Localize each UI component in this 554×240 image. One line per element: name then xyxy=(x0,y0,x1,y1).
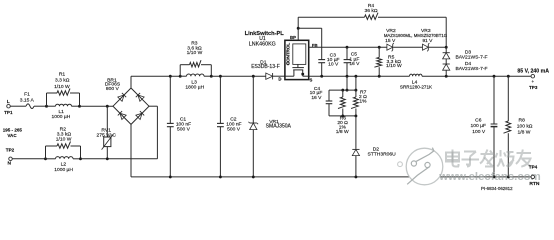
wire sense box top xyxy=(329,89,357,92)
svg-text:MAZS1800ML, MMSZ5270BT1G: MAZS1800ML, MMSZ5270BT1G xyxy=(384,33,448,38)
wire bridge negative riser xyxy=(130,124,132,176)
svg-text:500 V: 500 V xyxy=(177,126,191,132)
svg-text:LNK460KG: LNK460KG xyxy=(249,41,276,47)
node N / test point TP2 xyxy=(6,148,15,167)
capacitor C3 10 uF xyxy=(318,52,339,76)
watermark char dian xyxy=(446,150,459,167)
wire sense box bottom xyxy=(329,114,357,117)
wire output rail xyxy=(422,75,531,78)
wire VR2 to VR3 xyxy=(393,46,422,48)
svg-text:1/10 W: 1/10 W xyxy=(386,63,402,69)
label 195-265 VAC xyxy=(3,127,23,137)
wire L line from TP1 to fuse xyxy=(10,105,26,107)
svg-text:91 V: 91 V xyxy=(422,38,433,44)
bridge diode lower-right xyxy=(136,111,144,119)
svg-text:TP3: TP3 xyxy=(529,85,538,90)
svg-text:16 V: 16 V xyxy=(311,95,322,101)
inductor L4 SRR1280-271K xyxy=(400,74,433,89)
node RTN / test point TP4 xyxy=(529,164,540,187)
resistor R7 2 Ohm xyxy=(351,76,367,116)
resistor R8 100 kOhm xyxy=(504,76,533,177)
svg-text:R8: R8 xyxy=(519,118,526,124)
diode D1 ES3DB-13-F xyxy=(251,59,285,79)
U1 pin label BP xyxy=(290,35,296,40)
bridge diode lower-left xyxy=(118,111,126,119)
svg-text:TP1: TP1 xyxy=(4,110,13,115)
U1 CONTROL block xyxy=(286,43,306,66)
watermark char zi xyxy=(462,152,480,167)
svg-text:500 V: 500 V xyxy=(227,126,241,132)
node output / test point TP3 xyxy=(517,69,549,91)
svg-text:+: + xyxy=(531,79,534,84)
svg-text:1%: 1% xyxy=(359,99,367,105)
svg-text:275 VAC: 275 VAC xyxy=(96,133,116,139)
svg-text:TP2: TP2 xyxy=(6,148,15,153)
svg-text:15 V: 15 V xyxy=(385,38,396,44)
svg-text:SRR1280-271K: SRR1280-271K xyxy=(400,84,433,89)
svg-text:85 V, 240 mA: 85 V, 240 mA xyxy=(517,69,549,75)
svg-text:1000 µH: 1000 µH xyxy=(54,167,73,173)
svg-text:36 kΩ: 36 kΩ xyxy=(364,8,377,14)
watermark char fa xyxy=(480,150,494,167)
svg-text:D3: D3 xyxy=(465,50,472,56)
svg-text:www.elecfans.com: www.elecfans.com xyxy=(438,171,541,183)
U1 internal MOSFET xyxy=(285,62,309,76)
capacitor C1 100 nF xyxy=(167,76,191,177)
zener VR3 91V xyxy=(421,28,433,52)
svg-text:BAV21WS-7-F: BAV21WS-7-F xyxy=(455,66,487,72)
wire BP riser xyxy=(297,17,300,40)
wire fuse to R1/L1 junction xyxy=(34,105,48,108)
label zener part numbers xyxy=(384,33,448,38)
wire N line to riser and bridge right corner xyxy=(81,106,158,159)
wire HV rail bridge to R3/L3 xyxy=(131,75,182,78)
wire S rail xyxy=(309,75,410,78)
capacitor C4 10 uF xyxy=(310,86,333,116)
watermark url www.elecfans.com xyxy=(438,171,541,183)
svg-text:800 V: 800 V xyxy=(106,86,120,92)
svg-text:F1: F1 xyxy=(24,91,30,97)
svg-text:STTH3R06U: STTH3R06U xyxy=(367,152,396,158)
diode D2 STTH3R06U freewheeling xyxy=(352,116,396,177)
label PI-6834-062812 xyxy=(481,186,513,191)
TVS VR1 SMAJ350A xyxy=(248,76,291,177)
resistor R5 3.3 kOhm xyxy=(374,47,402,76)
diode D3 BAV21WS-7-F xyxy=(443,47,488,61)
resistor R6 20 Ohm xyxy=(336,90,349,135)
capacitor C5 1 uF xyxy=(344,47,361,76)
svg-text:D: D xyxy=(278,76,281,81)
svg-text:C6: C6 xyxy=(475,118,482,124)
svg-text:100 µF: 100 µF xyxy=(471,123,486,129)
svg-text:BAV21WS-7-F: BAV21WS-7-F xyxy=(455,55,487,61)
svg-text:16 V: 16 V xyxy=(349,61,360,67)
inductor L2 1000 uH xyxy=(46,157,82,173)
svg-text:1/10 W: 1/10 W xyxy=(187,50,203,56)
svg-text:S: S xyxy=(309,77,312,82)
svg-text:D4: D4 xyxy=(465,61,472,67)
svg-text:1/10 W: 1/10 W xyxy=(56,137,72,143)
zener VR2 15V xyxy=(385,28,396,52)
svg-text:195 - 265: 195 - 265 xyxy=(3,127,23,132)
inductor L1 1000 uH xyxy=(47,104,81,120)
capacitor C6 100 uF xyxy=(471,76,498,177)
svg-text:10 V: 10 V xyxy=(328,61,339,67)
svg-text:3.15 A: 3.15 A xyxy=(20,98,35,104)
svg-text:1/10 W: 1/10 W xyxy=(54,84,70,90)
wire N line from TP2 xyxy=(12,157,47,160)
bridge diode upper-right xyxy=(136,93,144,101)
watermark char you xyxy=(516,150,531,167)
svg-text:3.3 kΩ: 3.3 kΩ xyxy=(55,78,70,84)
resistor R3 3.6 kOhm xyxy=(180,40,211,76)
resistor R2 3.3 kOhm xyxy=(46,126,81,158)
svg-text:N: N xyxy=(7,160,11,166)
bridge diode upper-left xyxy=(118,93,126,101)
svg-text:1800 µH: 1800 µH xyxy=(185,85,204,91)
U1 pin label S xyxy=(309,77,312,82)
op-amp U1 LinkSwitch-PL LNK460KG outer box xyxy=(245,31,309,79)
node L / test point TP1 xyxy=(4,99,13,115)
fuse F1 3.15 A xyxy=(20,91,35,108)
watermark logo circle xyxy=(398,148,443,185)
varistor RV1 275 VAC xyxy=(96,105,116,161)
U1 pin label FB xyxy=(312,43,318,48)
svg-text:100 V: 100 V xyxy=(472,129,486,135)
svg-text:VAC: VAC xyxy=(7,133,17,138)
svg-text:1000 µH: 1000 µH xyxy=(52,114,71,120)
resistor R4 36 kOhm xyxy=(364,3,378,19)
diode D4 BAV21WS-7-F xyxy=(443,59,488,76)
svg-text:L3: L3 xyxy=(191,80,197,86)
wire top rail R4 to D3 column xyxy=(378,17,446,47)
svg-text:1/8 W: 1/8 W xyxy=(518,129,531,135)
capacitor C2 100 nF xyxy=(217,76,242,177)
svg-text:ES3DB-13-F: ES3DB-13-F xyxy=(251,64,280,70)
wire bridge positive riser xyxy=(130,76,132,88)
resistor R1 3.3 kOhm xyxy=(47,71,80,106)
wire sense riser xyxy=(346,76,349,91)
inductor L3 1800 uH xyxy=(180,74,213,91)
svg-text:PI-6834-062812: PI-6834-062812 xyxy=(481,186,513,191)
U1 pin label D xyxy=(278,76,281,81)
watermark char shao xyxy=(496,150,514,167)
svg-text:L2: L2 xyxy=(61,161,67,167)
svg-text:R1: R1 xyxy=(59,71,66,77)
wire bottom return rail xyxy=(131,175,531,178)
wire L1 to bridge xyxy=(80,105,114,107)
wire VR3 to D3 column xyxy=(429,46,448,49)
bridge rectifier BR1 DF06S diamond xyxy=(105,77,149,124)
wire FB rail xyxy=(309,46,387,49)
svg-text:100 kΩ: 100 kΩ xyxy=(517,123,533,129)
svg-text:3.3 kΩ: 3.3 kΩ xyxy=(57,131,72,137)
wire HV rail to D1 xyxy=(211,75,265,78)
svg-text:SMAJ350A: SMAJ350A xyxy=(266,123,292,129)
svg-text:RTN: RTN xyxy=(529,181,540,187)
wire BP branch to C3 xyxy=(298,28,322,59)
svg-text:TP4: TP4 xyxy=(529,164,538,169)
svg-text:BP: BP xyxy=(290,35,296,40)
wire top rail BP to R4 xyxy=(298,16,364,18)
svg-text:1/8 W: 1/8 W xyxy=(336,129,349,135)
